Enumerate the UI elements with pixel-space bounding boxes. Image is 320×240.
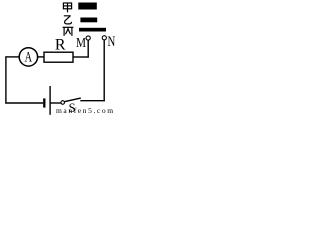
svg-text:R: R — [55, 36, 66, 53]
wire: right rail vertical from N — [103, 40, 105, 101]
wire: riser up to terminal M — [87, 40, 89, 57]
battery negative plate (short thick) — [43, 98, 45, 107]
resistor R (box) — [44, 52, 73, 62]
wire: left rail horizontal to ammeter — [6, 56, 19, 58]
wire sample jia (thick short bar) — [78, 3, 97, 10]
switch S arm — [64, 98, 81, 102]
svg-text:manfen5.com: manfen5.com — [56, 106, 115, 115]
label 乙 (specimen yi) — [64, 16, 72, 24]
label 丙 (specimen bing) — [63, 27, 74, 36]
terminal M (binding post) — [86, 36, 90, 40]
wire sample bing (thin long bar) — [79, 28, 106, 32]
wire: ammeter to resistor — [38, 56, 44, 58]
ammeter A — [19, 48, 37, 66]
svg-text:A: A — [25, 49, 33, 65]
wire: battery to switch — [50, 102, 61, 104]
label 甲 (specimen jia) — [63, 3, 71, 12]
wire sample yi (medium bar) — [80, 18, 97, 23]
battery positive plate (long) — [49, 86, 51, 115]
svg-text:N: N — [108, 34, 116, 50]
terminal N (binding post) — [102, 36, 106, 40]
wire: resistor to riser under M — [73, 56, 89, 58]
wire: left rail vertical — [5, 56, 7, 103]
wire: bottom right to switch — [80, 100, 105, 102]
svg-text:M: M — [76, 36, 86, 51]
wire: bottom left rail to battery — [5, 102, 43, 104]
switch S pivot — [61, 101, 65, 105]
